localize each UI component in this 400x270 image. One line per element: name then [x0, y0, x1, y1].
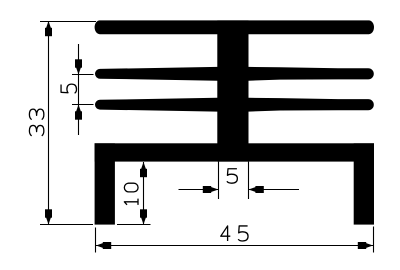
heatsink profile: middle fin (third) tapered	[95, 98, 374, 112]
dim 33: bottom extension line	[40, 224, 93, 226]
dim 5 fin pitch: text "5"	[61, 84, 76, 93]
heatsink profile: central spine	[217, 20, 248, 161]
heatsink profile: left leg	[95, 143, 115, 224]
dim 45: right arrow (points right)	[358, 242, 373, 249]
dim 45: dimension line	[96, 245, 374, 247]
heatsink profile: right leg	[354, 143, 374, 224]
dim 10: bottom reference line	[117, 224, 151, 226]
dim 5 spine: left arrow (points right)	[203, 186, 219, 193]
dim 33: bottom arrow	[45, 209, 52, 224]
dim 10: text "10"	[124, 183, 138, 205]
dim 45: right extension line	[373, 227, 375, 253]
dim 10: dimension line	[143, 162, 145, 224]
dim 5 fin pitch: dimension line	[78, 44, 80, 135]
dim 5 spine: right extension line	[248, 162, 250, 199]
dim 5 fin pitch: lower arrow (points up)	[75, 105, 82, 120]
dim 5 spine: left dimension line	[179, 189, 219, 191]
dim 33: text "33"	[29, 109, 43, 136]
heatsink profile: base bar	[95, 143, 374, 161]
dim 5 spine: right arrow (points left)	[249, 186, 264, 193]
dim 33: top arrow	[45, 21, 52, 36]
dim 5 spine: left extension line	[218, 162, 220, 199]
dim 10: bottom arrow (points down)	[140, 209, 147, 224]
dim 45: text "45"	[221, 226, 248, 241]
dim 10: top arrow (points up)	[140, 162, 147, 177]
dim 45: left arrow (points left)	[96, 242, 111, 249]
heatsink profile: middle fin (second) tapered	[95, 67, 374, 81]
dim 33: dimension line	[48, 22, 50, 225]
dim 5 spine: text "5"	[227, 169, 237, 183]
dim 5 fin pitch: lower tick line	[72, 104, 94, 106]
heatsink profile: top fin	[95, 20, 374, 34]
dim 5 fin pitch: upper tick line	[72, 74, 94, 76]
dim 45: left extension line	[95, 228, 97, 253]
dim 5 fin pitch: upper arrow (points down)	[75, 59, 82, 74]
dim 5 spine: right dimension line	[249, 189, 300, 191]
dim 33: top extension line	[40, 21, 96, 23]
